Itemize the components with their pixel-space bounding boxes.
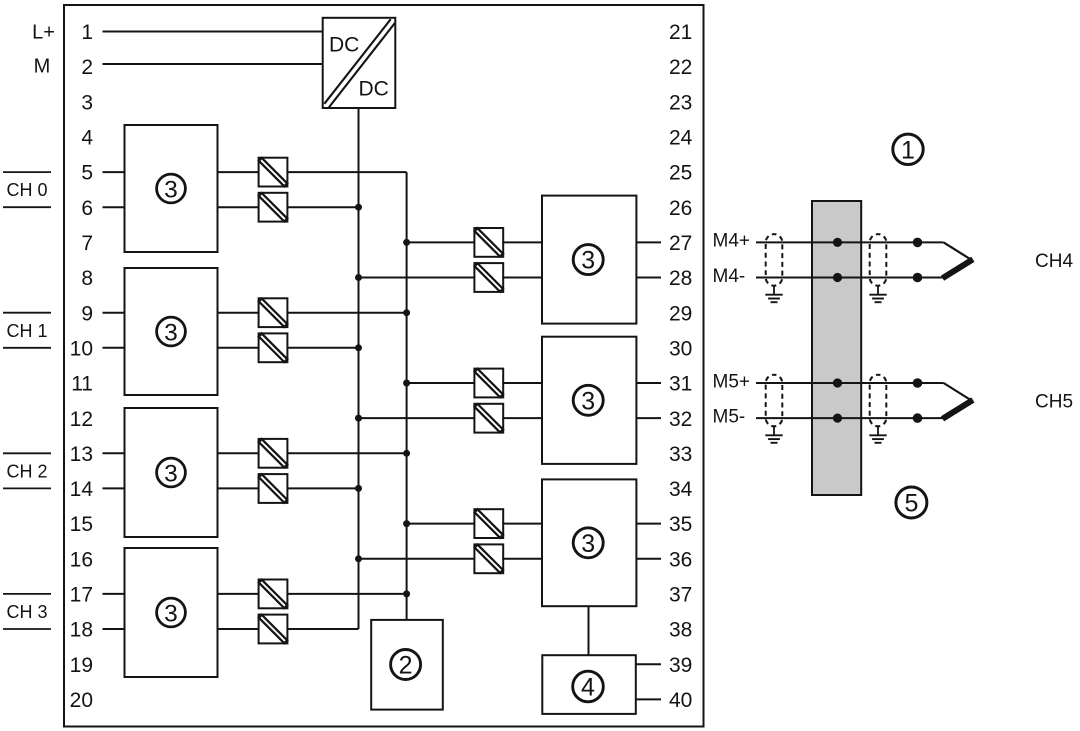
wire to isolation barrier — [218, 312, 259, 314]
junction on bus M — [355, 415, 362, 422]
svg-text:4: 4 — [81, 127, 93, 150]
wire bus M to output barrier 0 — [359, 277, 475, 279]
svg-text:35: 35 — [669, 513, 692, 536]
junction on bus M — [355, 555, 362, 562]
svg-text:5: 5 — [81, 162, 93, 185]
isolation barrier CH3- — [259, 615, 288, 644]
wire stub pin 35 — [636, 523, 661, 525]
wire pin 5 — [103, 171, 125, 173]
channel label CH 3 — [3, 594, 51, 629]
svg-text:27: 27 — [669, 232, 692, 255]
svg-text:CH4: CH4 — [1035, 251, 1073, 272]
cable contact dots — [913, 378, 923, 423]
ADC input block (3) CH0 — [125, 125, 218, 252]
cable shield (cable side) — [869, 234, 886, 302]
wire stub pin 32 — [636, 417, 661, 419]
svg-text:25: 25 — [669, 162, 692, 185]
svg-text:9: 9 — [81, 302, 93, 325]
wire to isolation barrier — [218, 593, 259, 595]
svg-text:14: 14 — [70, 478, 94, 501]
junction on bus M — [355, 485, 362, 492]
svg-text:15: 15 — [70, 513, 93, 536]
svg-text:2: 2 — [399, 652, 413, 680]
wire M5+ — [756, 382, 944, 384]
svg-text:40: 40 — [669, 689, 692, 712]
wire bus M to output barrier 2 — [359, 558, 475, 560]
svg-text:38: 38 — [669, 619, 692, 642]
svg-text:3: 3 — [164, 319, 178, 346]
junction on bus P — [403, 590, 410, 597]
svg-text:M5-: M5- — [713, 406, 746, 427]
junction on bus P — [403, 520, 410, 527]
wire stub pin 40 — [636, 698, 661, 700]
svg-text:39: 39 — [669, 654, 692, 677]
svg-text:12: 12 — [70, 408, 93, 431]
svg-text:5: 5 — [904, 490, 918, 518]
wire stub pin 28 — [636, 277, 661, 279]
svg-text:3: 3 — [164, 460, 178, 487]
svg-text:1: 1 — [901, 136, 915, 164]
wire pin 6 — [103, 206, 125, 208]
block (2) — [371, 620, 443, 710]
wire pin 9 — [103, 312, 125, 314]
svg-text:M4-: M4- — [713, 266, 746, 287]
wire CH0+ to bus P — [287, 171, 406, 173]
svg-text:CH 3: CH 3 — [6, 602, 47, 622]
terminal contact dots — [833, 238, 842, 282]
svg-text:34: 34 — [669, 478, 693, 501]
svg-text:26: 26 — [669, 197, 692, 220]
svg-text:11: 11 — [71, 373, 93, 396]
wire stub pin 39 — [636, 663, 661, 665]
isolation barrier CH2- — [259, 474, 288, 503]
wire block3 to block 4 — [588, 606, 590, 655]
wire CH3+ to bus P — [287, 593, 406, 595]
svg-text:22: 22 — [669, 56, 692, 79]
wire pin 2 to DC/DC — [103, 63, 323, 65]
svg-text:CH5: CH5 — [1035, 392, 1073, 413]
svg-text:33: 33 — [669, 443, 692, 466]
svg-text:20: 20 — [70, 689, 93, 712]
svg-text:16: 16 — [70, 548, 93, 571]
terminal contact dots — [833, 378, 842, 422]
svg-text:M: M — [34, 56, 51, 78]
wire to isolation barrier — [218, 171, 259, 173]
svg-text:18: 18 — [70, 619, 93, 642]
svg-text:CH 0: CH 0 — [6, 180, 47, 200]
wire bus P to output barrier 0 — [407, 241, 475, 243]
wire pin 18 — [103, 628, 125, 630]
wire stub pin 27 — [636, 241, 661, 243]
isolation barrier CH3+ — [259, 580, 288, 609]
svg-text:30: 30 — [669, 337, 692, 360]
wire CH0- to bus M — [287, 206, 358, 208]
svg-text:24: 24 — [669, 127, 693, 150]
svg-text:29: 29 — [669, 302, 692, 325]
isolation barrier out0+ — [474, 228, 503, 257]
wire barrier to block — [502, 417, 542, 419]
wire bus M to output barrier 1 — [359, 417, 475, 419]
junction on bus M — [355, 344, 362, 351]
junction on bus P — [403, 380, 410, 387]
cable shield (module side) — [765, 375, 782, 443]
svg-text:21: 21 — [669, 21, 692, 44]
channel label CH 1 — [3, 313, 51, 348]
output block (3) #1 — [542, 196, 636, 324]
junction on bus M — [355, 204, 362, 211]
svg-text:13: 13 — [70, 443, 93, 466]
svg-text:7: 7 — [81, 232, 93, 255]
svg-text:DC: DC — [329, 34, 359, 57]
wire M4+ — [756, 241, 944, 243]
svg-text:23: 23 — [669, 91, 692, 114]
note (1) — [893, 134, 923, 164]
svg-text:31: 31 — [669, 373, 692, 396]
wire to isolation barrier — [218, 452, 259, 454]
svg-text:3: 3 — [164, 600, 178, 627]
svg-text:3: 3 — [81, 91, 93, 114]
isolation barrier out2- — [474, 544, 503, 573]
isolation barrier out2+ — [474, 509, 503, 538]
svg-text:4: 4 — [581, 674, 595, 702]
wire bus P to output barrier 2 — [407, 523, 475, 525]
block (4) — [542, 655, 636, 714]
isolation barrier CH0- — [259, 193, 288, 222]
wire CH1+ to bus P — [287, 312, 406, 314]
svg-text:19: 19 — [70, 654, 93, 677]
wire stub pin 31 — [636, 382, 661, 384]
wire CH2- to bus M — [287, 487, 358, 489]
wire barrier to block — [502, 277, 542, 279]
wire CH1- to bus M — [287, 347, 358, 349]
cable shield (cable side) — [869, 375, 886, 443]
wire to isolation barrier — [218, 206, 259, 208]
channel label CH 2 — [3, 453, 51, 488]
cable shield (module side) — [765, 234, 782, 302]
bus wire M (from DC/DC) — [358, 108, 360, 629]
wire stub pin 36 — [636, 558, 661, 560]
bus wire P (to block 2) — [406, 172, 408, 620]
wire CH2+ to bus P — [287, 452, 406, 454]
isolation barrier CH1+ — [259, 298, 288, 327]
channel label CH 0 — [3, 172, 51, 207]
svg-text:32: 32 — [669, 408, 692, 431]
svg-text:3: 3 — [164, 176, 178, 203]
wire CH3- to bus M — [287, 628, 358, 630]
svg-text:3: 3 — [581, 387, 595, 415]
wire to isolation barrier — [218, 628, 259, 630]
svg-text:17: 17 — [70, 584, 93, 607]
wire barrier to block — [502, 241, 542, 243]
svg-text:10: 10 — [70, 337, 93, 360]
svg-text:1: 1 — [81, 21, 93, 44]
note (5) — [896, 487, 927, 518]
wire pin 10 — [103, 347, 125, 349]
svg-text:CH 1: CH 1 — [6, 321, 47, 341]
junction on bus P — [403, 450, 410, 457]
svg-text:3: 3 — [581, 247, 595, 275]
isolation barrier out1- — [474, 404, 503, 433]
svg-text:L+: L+ — [32, 22, 55, 44]
wire to isolation barrier — [218, 487, 259, 489]
twisted pair arrow CH4 — [943, 242, 973, 278]
wire pin 1 to DC/DC — [103, 31, 323, 33]
cable contact dots — [913, 238, 923, 283]
junction on bus P — [403, 239, 410, 246]
output block (3) #3 — [542, 479, 636, 606]
wire pin 13 — [103, 452, 125, 454]
module enclosure — [64, 5, 704, 727]
svg-text:CH 2: CH 2 — [6, 461, 47, 481]
wire to isolation barrier — [218, 347, 259, 349]
svg-text:M4+: M4+ — [713, 231, 751, 252]
output block (3) #2 — [542, 337, 636, 464]
wire barrier to block — [502, 558, 542, 560]
wire barrier to block — [502, 523, 542, 525]
wire M4- — [756, 277, 944, 279]
svg-text:DC: DC — [359, 77, 389, 100]
junction on bus M — [355, 274, 362, 281]
wire pin 17 — [103, 593, 125, 595]
wire barrier to block — [502, 382, 542, 384]
isolation barrier out1+ — [474, 369, 503, 398]
svg-text:M5+: M5+ — [713, 371, 751, 392]
svg-text:6: 6 — [81, 197, 93, 220]
svg-text:36: 36 — [669, 548, 692, 571]
twisted pair arrow CH5 — [943, 383, 973, 419]
wire pin 14 — [103, 487, 125, 489]
isolation barrier out0- — [474, 263, 503, 292]
svg-text:37: 37 — [669, 584, 692, 607]
svg-text:3: 3 — [581, 530, 595, 558]
isolation barrier CH0+ — [259, 158, 288, 187]
svg-text:2: 2 — [81, 56, 93, 79]
svg-text:8: 8 — [81, 267, 93, 290]
backplane terminal bar — [812, 201, 861, 495]
ADC input block (3) CH1 — [125, 268, 218, 395]
ADC input block (3) CH2 — [125, 408, 218, 537]
ADC input block (3) CH3 — [125, 548, 218, 677]
svg-text:28: 28 — [669, 267, 692, 290]
isolation barrier CH1- — [259, 333, 288, 362]
wire M5- — [756, 417, 944, 419]
isolation barrier CH2+ — [259, 439, 288, 468]
DC/DC converter — [323, 18, 396, 108]
wire bus P to output barrier 1 — [407, 382, 475, 384]
junction on bus P — [403, 309, 410, 316]
